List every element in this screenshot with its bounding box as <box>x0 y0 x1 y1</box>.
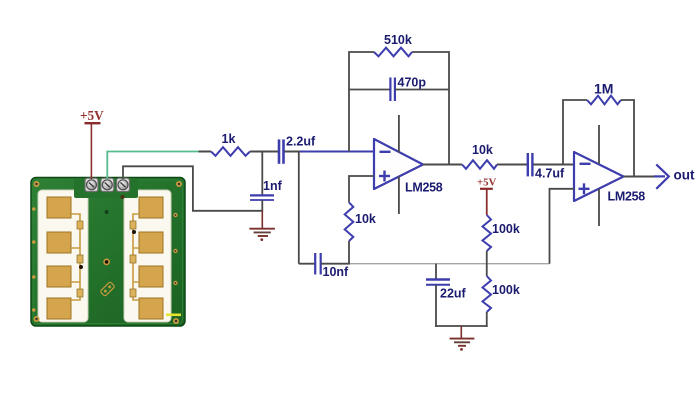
wire: 100k to bottom node <box>486 312 488 327</box>
svg-text:100k: 100k <box>492 222 520 236</box>
wire: 2.2uf to node B <box>285 151 302 153</box>
PCB terminal tab <box>74 178 138 199</box>
wire: 1M feedback left rail <box>563 100 587 165</box>
svg-text:LM258: LM258 <box>405 180 443 194</box>
svg-text:10k: 10k <box>355 212 376 226</box>
wire: U1 plus input to 10k <box>349 176 374 202</box>
ground (bias network) <box>450 339 475 351</box>
svg-text:10nf: 10nf <box>323 265 350 279</box>
wire: ground stem (dark red) <box>261 211 263 229</box>
+5V supply symbol (module) <box>80 108 104 123</box>
wire: 470p branch right <box>395 89 449 91</box>
wire: node B to op-amp U1 inverting input (blue) <box>300 151 374 153</box>
power pins U1 <box>398 115 400 214</box>
wire: 10nf to 10k node <box>321 263 350 265</box>
capacitor C1 2.2uf <box>279 139 284 163</box>
wire: ground stem (bias) <box>460 326 462 339</box>
svg-text:LM258: LM258 <box>608 190 646 204</box>
svg-text:22uf: 22uf <box>440 287 467 301</box>
resistor R5 1M <box>587 96 621 105</box>
PCB vias and marks <box>32 181 182 324</box>
wire: 10k to 4.7uf <box>497 164 528 166</box>
resistor R6 100k (upper) <box>483 215 492 251</box>
wire: +5V to module pin 1 <box>90 123 92 179</box>
wire: 1nf to ground <box>261 200 263 212</box>
svg-text:470p: 470p <box>398 76 427 90</box>
resistor R4 10k (series) <box>462 160 497 169</box>
capacitor C4 470p <box>390 78 395 102</box>
PCB terminal block pin 3 (GND) <box>117 178 130 191</box>
wire: module pin 2 to 1k (green signal wire) <box>107 152 199 180</box>
wire: 10k to bias rail <box>348 241 350 265</box>
wire: 510k to right rail <box>412 52 449 165</box>
wire: 4.7uf to U2 inverting input <box>533 164 574 166</box>
svg-text:10k: 10k <box>472 143 493 157</box>
wire: U2 plus input to bias rail <box>550 189 575 264</box>
wire: green wire to resistor 1k <box>199 151 212 153</box>
wire: module pin 3 ground return to 1nf node <box>123 166 262 211</box>
wire: 100k junction through bias rail <box>486 251 488 276</box>
svg-text:100k: 100k <box>492 283 520 297</box>
PCB white antenna panel left <box>38 190 88 322</box>
PCB patch antennas left <box>47 197 71 319</box>
PCB patch antennas right <box>139 197 163 319</box>
svg-text:510k: 510k <box>384 33 412 47</box>
svg-text:4.7uf: 4.7uf <box>535 167 565 181</box>
wire: U2 output to out <box>624 176 657 178</box>
svg-text:out: out <box>674 168 695 183</box>
op-amp U2 LM258 <box>574 152 624 201</box>
resistor R7 100k (lower) <box>483 276 492 312</box>
wire: 470p branch left <box>349 89 391 91</box>
capacitor C5 4.7uf <box>528 153 533 176</box>
svg-text:2.2uf: 2.2uf <box>286 135 316 149</box>
PCB terminal block pin 1 (+5V) <box>85 178 98 191</box>
resistor R2 510k <box>374 48 412 57</box>
svg-text:1M: 1M <box>594 81 613 97</box>
wire: feedback loop top (510k branch) <box>349 52 374 152</box>
wire: +5V to 100k <box>486 189 488 215</box>
svg-text:1k: 1k <box>222 132 236 146</box>
PCB feed traces right <box>133 214 139 300</box>
wire: bottom node horizontal <box>435 325 488 327</box>
wire: node B down to 10nf <box>298 152 300 264</box>
PCB terminal block pin 2 (signal out) <box>101 178 114 191</box>
power pins U2 <box>598 125 600 226</box>
ground (1nf) <box>249 229 275 241</box>
wire: 1k to 2.2uf (junction node A) <box>250 151 278 153</box>
wire: 22uf bottom stem <box>435 285 437 327</box>
output arrow <box>654 164 669 188</box>
svg-text:+5V: +5V <box>477 176 497 188</box>
+5V supply symbol (bias network) <box>477 176 497 188</box>
capacitor C3 10nf <box>315 253 321 275</box>
wire: bottom bias rail (gray) <box>349 263 550 265</box>
PCB white antenna panel right <box>124 190 171 322</box>
wire: 22uf top stem <box>435 264 437 280</box>
svg-text:+5V: +5V <box>80 108 104 123</box>
resistor R3 10k (to bias rail) <box>345 202 354 241</box>
capacitor C6 22uf <box>426 280 450 285</box>
wire: U1 output <box>423 164 462 166</box>
wire: node A down to 1nf <box>261 152 263 196</box>
op-amp U1 LM258 <box>374 139 423 189</box>
wire: node B to 10nf left plate <box>299 263 315 265</box>
svg-text:1nf: 1nf <box>263 179 283 193</box>
sensor module PCB board <box>31 178 185 327</box>
resistor R1 1k <box>211 147 250 156</box>
wire: 1M to right rail <box>621 100 634 177</box>
capacitor C2 1nf <box>250 195 274 200</box>
PCB feed traces left <box>71 214 80 300</box>
